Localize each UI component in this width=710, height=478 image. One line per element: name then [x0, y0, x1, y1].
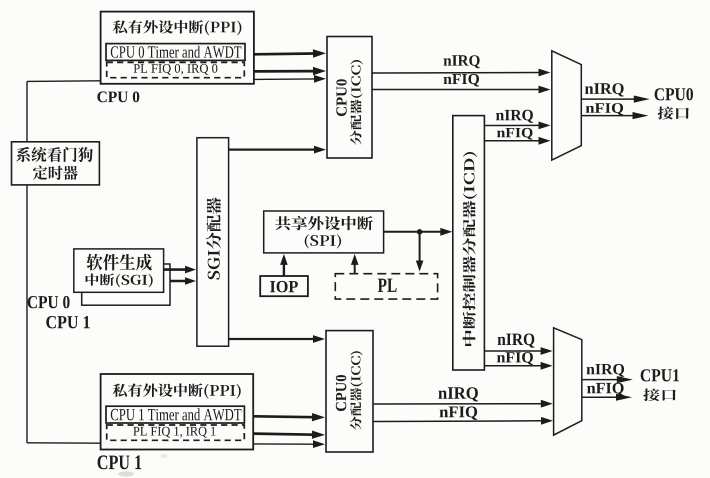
SPI box: [264, 211, 384, 253]
wire ICD nFIQ to mux top: [484, 137, 550, 145]
junction dot SPI net: [417, 229, 423, 235]
ICD text: [463, 152, 478, 346]
PPI CPU1 title: [113, 383, 241, 398]
CPU0 timer inner box: [106, 44, 245, 61]
ICD box: [453, 116, 485, 370]
PL text: [378, 279, 397, 292]
PPI CPU1 box: [101, 374, 254, 450]
IOP text: [270, 281, 298, 293]
wire PPI0 plfiq to ICC0: [254, 67, 326, 75]
IOP box: [260, 276, 308, 296]
SPI title: [275, 216, 373, 230]
wire mux to CPU1 nFIQ: [582, 394, 632, 401]
PPI CPU0 box: [101, 12, 254, 84]
CPU1 timer inner box: [106, 406, 244, 423]
wire dispatcher to ICC1: [229, 335, 325, 343]
wire PPI1 timer to ICC1: [253, 413, 325, 421]
wire IOP to SPI: [280, 254, 288, 276]
wire watchdog to CPU1 ICC: [27, 440, 325, 448]
label nFIQ out0: [586, 103, 623, 115]
label CPU 0 mid: [28, 296, 70, 308]
label nIRQ out0: [585, 83, 624, 96]
label nFIQ icc0: [444, 74, 480, 87]
wire ICD nFIQ to mux bottom: [484, 362, 552, 370]
wire mux to CPU1 nIRQ: [582, 376, 633, 383]
wire SPI to ICD: [384, 228, 453, 236]
label nFIQ icd bottom: [497, 352, 533, 365]
label nIRQ icd bottom: [498, 334, 535, 348]
SGI back box: [82, 264, 170, 305]
label nIRQ icd top: [496, 110, 533, 123]
ICC1 text CPU0: [336, 375, 347, 411]
wire watchdog to CPU0 ICC: [27, 75, 326, 83]
wire SGI to dispatcher 2: [170, 277, 196, 285]
wire ICC1 nIRQ to mux: [373, 400, 553, 408]
CPU1 timer text: [111, 408, 242, 420]
CPU0 ICC box bottom: [326, 331, 373, 452]
ICC0 text CPU0: [336, 79, 346, 116]
wire PPI1 plfiq to ICC1: [253, 431, 325, 439]
SPI subtitle: [305, 234, 341, 248]
PPI CPU0 title: [113, 20, 242, 35]
CPU0 ICC box top: [327, 37, 372, 159]
label CPU 1 bottom: [98, 455, 142, 469]
SGI dispatcher box: [197, 138, 229, 347]
SGI text line2: [86, 274, 153, 288]
SGI front box: [74, 249, 164, 292]
label nIRQ out1: [587, 364, 625, 377]
label CPU1 interface: [641, 369, 679, 381]
label nIRQ icc0: [444, 55, 480, 68]
wire SPI net to PL: [416, 232, 424, 272]
PL dashed box: [335, 274, 437, 299]
label CPU 1 mid: [46, 316, 89, 328]
label dingshiqi: [33, 166, 78, 180]
scan smudge 2: [161, 454, 168, 458]
wire PL to SPI: [351, 254, 359, 274]
label nFIQ icd top: [497, 128, 533, 140]
wire watchdog vertical bus: [26, 81, 28, 443]
wire mux to CPU0 nIRQ: [581, 96, 650, 103]
SGI text line1: [87, 254, 152, 271]
wire ICC0 nIRQ to mux: [372, 69, 551, 77]
wire ICC1 nFIQ to mux: [373, 417, 553, 425]
wire dispatcher to ICC0: [229, 146, 326, 154]
PL FIQ1 text: [133, 427, 215, 438]
SGI dispatcher text: [206, 198, 221, 280]
wire mux to CPU0 nFIQ: [581, 112, 648, 119]
wire ICD nIRQ to mux bottom: [484, 347, 552, 355]
wire SGI to dispatcher 1: [164, 266, 196, 274]
ICC0 text fenpeiqi: [350, 60, 363, 145]
label xitongkanmengou: [16, 147, 93, 162]
wire ICC0 nFIQ to mux: [372, 86, 551, 94]
ICC1 text fenpeiqi: [350, 351, 363, 430]
mux CPU0 interface: [552, 51, 582, 160]
label CPU 0 top: [97, 91, 139, 102]
watchdog timer box: [12, 142, 100, 185]
PL FIQ0 dashed box: [107, 62, 245, 77]
label nFIQ out1: [587, 383, 624, 396]
label CPU0 interface: [655, 88, 693, 100]
wire PPI0 timer to ICC0: [254, 49, 326, 57]
PL FIQ0 text: [134, 64, 218, 75]
scan smudge 1: [118, 471, 134, 476]
label nIRQ icc1: [438, 387, 478, 401]
label jiekou 0: [658, 107, 689, 120]
CPU0 timer text: [111, 46, 242, 58]
PL FIQ1 dashed box: [107, 425, 245, 440]
mux CPU1 interface: [554, 328, 582, 435]
label jiekou 1: [643, 389, 676, 402]
label nFIQ icc1: [440, 406, 478, 420]
wire ICD nIRQ to mux top: [484, 122, 550, 130]
